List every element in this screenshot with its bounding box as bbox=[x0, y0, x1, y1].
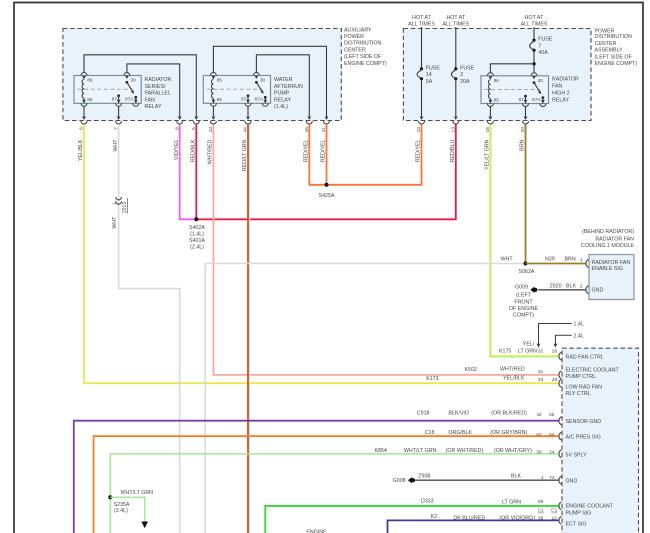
K1 coil pin 85 bbox=[81, 97, 93, 106]
wire K2-86 to pin 43 bbox=[212, 106, 214, 116]
svg-text:24: 24 bbox=[549, 450, 555, 456]
svg-text:LT GRN: LT GRN bbox=[518, 349, 537, 355]
svg-text:DISTRIBUTION: DISTRIBUTION bbox=[344, 41, 382, 47]
ECM pin ect sig bbox=[559, 517, 561, 525]
Z908 BLK labels bbox=[418, 473, 555, 481]
wire BRN pin20 to S062A bbox=[525, 124, 527, 263]
svg-text:WHT/LT GRN: WHT/LT GRN bbox=[404, 448, 437, 454]
wire ORG/BLK a/c pres sig bbox=[94, 436, 560, 533]
wire YEL/LT GRN pin16 to K175 row bbox=[490, 124, 560, 357]
S235A branch arrow bbox=[141, 522, 148, 529]
wire K1-30 to pin 8 rail bbox=[127, 64, 180, 116]
svg-text:GND: GND bbox=[592, 287, 604, 293]
svg-text:RELAY: RELAY bbox=[274, 97, 291, 103]
svg-text:(OR WHT/RED): (OR WHT/RED) bbox=[446, 448, 484, 454]
K3 coil pin 86 bbox=[487, 73, 499, 99]
ECM pin gnd bbox=[559, 476, 561, 484]
svg-text:D333: D333 bbox=[421, 498, 434, 504]
wire K2-87 to pin 44 bbox=[247, 106, 249, 116]
svg-text:30: 30 bbox=[130, 78, 136, 84]
svg-text:GND: GND bbox=[566, 479, 578, 485]
N29 BRN labels bbox=[545, 256, 583, 263]
svg-text:FAN: FAN bbox=[552, 84, 562, 90]
radiator fan cooling 1 module box bbox=[589, 255, 634, 300]
connector cups at box2 bottom edge bbox=[419, 121, 529, 124]
pin numbers under connector edge bbox=[79, 127, 526, 133]
K2 pin 87A bbox=[254, 96, 268, 106]
svg-text:26: 26 bbox=[552, 348, 558, 354]
fuse 7 junction bbox=[532, 62, 535, 65]
svg-text:S062A: S062A bbox=[519, 269, 535, 275]
svg-text:K2: K2 bbox=[431, 514, 438, 520]
wire WHT/LT GRN 5v sply bbox=[110, 454, 559, 533]
K3 pin 87 bbox=[519, 95, 529, 107]
svg-text:YEL/BLK: YEL/BLK bbox=[503, 375, 525, 381]
fuse 7 40A bbox=[530, 27, 553, 73]
power distribution center box (dashed) bbox=[403, 29, 591, 121]
svg-text:ENGINE COOLANT: ENGINE COOLANT bbox=[566, 504, 614, 510]
svg-text:C1: C1 bbox=[538, 508, 544, 514]
svg-text:20A: 20A bbox=[460, 79, 470, 85]
relay K3 radiator fan high 2 relay bbox=[481, 76, 549, 104]
svg-text:K175: K175 bbox=[499, 348, 511, 354]
svg-text:(BEHIND RADIATOR): (BEHIND RADIATOR) bbox=[582, 229, 634, 235]
svg-text:COOLING 1 MODULE: COOLING 1 MODULE bbox=[581, 243, 634, 249]
svg-text:86: 86 bbox=[217, 97, 223, 103]
right ECM/PCM box (dashed) bbox=[562, 348, 639, 533]
svg-text:RADIATOR: RADIATOR bbox=[552, 77, 579, 83]
svg-text:DK BLU/RED: DK BLU/RED bbox=[453, 515, 485, 521]
K3 pin 87A bbox=[532, 96, 546, 106]
svg-text:(2.4L): (2.4L) bbox=[114, 508, 128, 514]
svg-text:A/C PRES SIG: A/C PRES SIG bbox=[566, 435, 601, 441]
svg-text:BRN: BRN bbox=[565, 256, 576, 262]
splice S402A bbox=[194, 217, 198, 221]
svg-text:RELAY: RELAY bbox=[552, 97, 569, 103]
svg-text:2.4L: 2.4L bbox=[574, 333, 584, 339]
PDC label bbox=[595, 28, 638, 67]
svg-text:RLY CTRL: RLY CTRL bbox=[566, 391, 591, 397]
svg-text:1.4L: 1.4L bbox=[574, 322, 584, 328]
wire K2-30 to pin 45 rail bbox=[256, 55, 309, 116]
svg-text:AUXILIARY: AUXILIARY bbox=[344, 27, 372, 33]
wire YEL/BLK pin6 to K173 row bbox=[84, 124, 559, 383]
svg-text:ALL TIMES: ALL TIMES bbox=[408, 21, 435, 27]
svg-text:87A: 87A bbox=[532, 97, 541, 103]
svg-text:ALL TIMES: ALL TIMES bbox=[442, 21, 469, 27]
K175 row labels bbox=[499, 341, 557, 354]
K854 row labels bbox=[375, 448, 555, 456]
D333 row labels bbox=[421, 498, 558, 513]
K2 pin 87 bbox=[241, 94, 251, 106]
svg-text:FAN: FAN bbox=[145, 97, 155, 103]
auxiliary PDC label bbox=[344, 27, 387, 67]
relay K2 water afterrun pump relay bbox=[203, 76, 270, 104]
svg-text:2: 2 bbox=[460, 72, 463, 78]
svg-text:FUSE: FUSE bbox=[538, 37, 553, 43]
svg-text:G009: G009 bbox=[515, 285, 528, 291]
svg-text:ENGINE COMPT): ENGINE COMPT) bbox=[595, 61, 638, 67]
svg-text:Z908: Z908 bbox=[418, 473, 430, 479]
svg-text:CENTER: CENTER bbox=[344, 47, 366, 53]
svg-text:7: 7 bbox=[538, 43, 541, 49]
svg-text:DISTRIBUTION: DISTRIBUTION bbox=[595, 34, 633, 40]
svg-text:LOW RAD FAN: LOW RAD FAN bbox=[566, 384, 603, 390]
hot at all times label 2 bbox=[442, 15, 469, 28]
svg-text:87A: 87A bbox=[254, 97, 263, 103]
svg-text:86: 86 bbox=[87, 78, 93, 84]
wire VIO/YEL pin8 to S402A bbox=[180, 124, 197, 219]
wire Z920 BLK to module pin 2 bbox=[538, 289, 586, 291]
svg-text:30: 30 bbox=[538, 78, 544, 84]
svg-text:S401A: S401A bbox=[189, 238, 205, 244]
svg-text:10: 10 bbox=[552, 515, 558, 521]
wire K2 DK BLU/RED ect sig bbox=[388, 520, 560, 533]
splice S425A bbox=[325, 183, 329, 187]
svg-text:1: 1 bbox=[580, 257, 583, 263]
svg-text:S425A: S425A bbox=[319, 193, 335, 199]
K3 switch pin 30 bbox=[531, 73, 543, 95]
ECM pin low rad fan rly ctrl bbox=[559, 379, 561, 387]
svg-text:39: 39 bbox=[538, 515, 544, 521]
svg-text:WHT/LT GRN: WHT/LT GRN bbox=[121, 490, 154, 496]
wire name labels (rotated) bbox=[78, 139, 526, 229]
svg-text:2: 2 bbox=[580, 283, 583, 289]
svg-text:30: 30 bbox=[260, 78, 266, 84]
wire RED/LT GRN pin44 down off page bbox=[248, 124, 250, 533]
svg-text:33: 33 bbox=[538, 377, 544, 383]
svg-text:(2.4L): (2.4L) bbox=[190, 245, 204, 251]
C18 row labels bbox=[425, 430, 555, 438]
ECM pin a/c pres sig bbox=[559, 432, 561, 440]
G009 label block bbox=[509, 285, 539, 319]
svg-text:5A: 5A bbox=[426, 79, 433, 85]
ECM pin rad fan ctrl bbox=[559, 352, 561, 360]
svg-text:(LEFT: (LEFT bbox=[516, 292, 531, 298]
svg-text:FUSE: FUSE bbox=[460, 65, 475, 71]
wire WHT/RED pin43 to K502 row bbox=[213, 124, 559, 375]
svg-text:SERIES/: SERIES/ bbox=[145, 84, 166, 90]
svg-text:55: 55 bbox=[549, 412, 555, 418]
K1 pin 87A bbox=[125, 96, 139, 106]
wire WHT pin7 down with jog bbox=[119, 124, 180, 533]
fuse 14 5A bbox=[417, 27, 440, 116]
module pin 2 bbox=[586, 286, 588, 294]
svg-text:64: 64 bbox=[549, 432, 555, 438]
svg-text:ORG/BLK: ORG/BLK bbox=[448, 430, 472, 436]
wire K3-87 to pin 20 bbox=[525, 107, 527, 117]
svg-text:LT GRN: LT GRN bbox=[502, 499, 521, 505]
K2 row labels bbox=[431, 514, 558, 521]
K173 row labels bbox=[426, 375, 557, 382]
K2 switch pin 30 bbox=[253, 73, 265, 95]
svg-text:(OR GRY/BRN): (OR GRY/BRN) bbox=[490, 430, 527, 436]
svg-text:82: 82 bbox=[536, 432, 542, 438]
S235A labels bbox=[114, 490, 154, 514]
S235A branch wire bbox=[110, 497, 144, 521]
svg-text:WHT: WHT bbox=[501, 257, 514, 263]
svg-text:14: 14 bbox=[426, 72, 432, 78]
wire K1-87 to pin 7 bbox=[118, 106, 120, 116]
svg-text:K854: K854 bbox=[375, 448, 387, 454]
fuse 2 20A bbox=[451, 27, 474, 116]
svg-text:1: 1 bbox=[541, 475, 544, 481]
ECM pin engine coolant pump sig bbox=[559, 502, 561, 510]
svg-text:ENGINE COMPT): ENGINE COMPT) bbox=[344, 61, 387, 67]
svg-text:40A: 40A bbox=[538, 50, 548, 56]
K2 relay label bbox=[274, 77, 303, 110]
ECM pin 5v sply bbox=[559, 450, 561, 458]
ground G008 bbox=[408, 477, 415, 483]
svg-text:(LEFT SIDE OF: (LEFT SIDE OF bbox=[344, 54, 382, 60]
svg-text:ENABLE SIG: ENABLE SIG bbox=[592, 266, 624, 272]
K1 relay label bbox=[145, 77, 172, 110]
svg-text:85: 85 bbox=[87, 97, 93, 103]
svg-text:AFTERRUN: AFTERRUN bbox=[274, 84, 303, 90]
svg-text:(1.4L): (1.4L) bbox=[190, 232, 204, 238]
wire K1-85 to pin 6 bbox=[83, 106, 85, 116]
K2 coil pin 85 bbox=[210, 73, 222, 99]
svg-text:RELAY: RELAY bbox=[145, 104, 162, 110]
svg-text:RADIATOR FAN: RADIATOR FAN bbox=[595, 236, 634, 242]
1.4L callout bbox=[537, 322, 584, 348]
C918 row labels bbox=[417, 410, 555, 418]
svg-text:(OR VIO/ORG): (OR VIO/ORG) bbox=[499, 515, 535, 521]
svg-text:N29: N29 bbox=[545, 256, 555, 262]
ground G009 bbox=[530, 287, 537, 293]
svg-text:ECT SIG: ECT SIG bbox=[566, 521, 587, 527]
svg-text:85: 85 bbox=[217, 78, 223, 84]
K2 coil pin 86 bbox=[210, 97, 222, 106]
svg-text:PUMP: PUMP bbox=[274, 91, 290, 97]
svg-text:OF ENGINE: OF ENGINE bbox=[509, 306, 539, 312]
svg-text:BLK: BLK bbox=[566, 283, 576, 289]
svg-text:32: 32 bbox=[538, 348, 544, 354]
splice S062A bbox=[524, 262, 528, 266]
svg-text:87: 87 bbox=[519, 97, 525, 103]
svg-text:87A: 87A bbox=[125, 97, 134, 103]
svg-text:WHT: WHT bbox=[112, 216, 118, 229]
svg-text:K173: K173 bbox=[426, 376, 438, 382]
svg-text:C18: C18 bbox=[425, 430, 435, 436]
svg-text:HIGH 2: HIGH 2 bbox=[552, 90, 570, 96]
ECM pin sensor gnd bbox=[559, 417, 561, 425]
K3 relay label bbox=[552, 77, 579, 104]
module pin texts bbox=[592, 260, 631, 293]
K3 coil pin 85 bbox=[487, 98, 499, 107]
svg-text:29: 29 bbox=[552, 377, 558, 383]
K502 row labels bbox=[465, 367, 544, 375]
svg-text:1: 1 bbox=[112, 202, 118, 205]
wire K3-85 to pin 16 bbox=[489, 107, 491, 117]
svg-text:ASSEMBLY: ASSEMBLY bbox=[595, 48, 624, 54]
connector cups at box1 bottom edge bbox=[81, 121, 330, 124]
svg-text:SENSOR GND: SENSOR GND bbox=[566, 419, 602, 425]
svg-text:42: 42 bbox=[536, 412, 542, 418]
wire RED/YEL pin45 to S425A bbox=[309, 124, 326, 185]
svg-text:HOT AT: HOT AT bbox=[525, 15, 544, 21]
svg-text:C918: C918 bbox=[417, 410, 430, 416]
auxiliary power distribution center box (dashed) bbox=[63, 29, 341, 121]
svg-text:(OR WHT/GRY): (OR WHT/GRY) bbox=[494, 448, 532, 454]
svg-text:87: 87 bbox=[241, 97, 247, 103]
wire BLK/VIO sensor gnd bbox=[74, 421, 560, 533]
svg-text:YEL/: YEL/ bbox=[523, 341, 535, 347]
svg-text:FRONT: FRONT bbox=[514, 300, 533, 306]
svg-text:RADIATOR: RADIATOR bbox=[145, 77, 172, 83]
svg-text:PUMP CTRL: PUMP CTRL bbox=[566, 374, 597, 380]
svg-text:BLK/VIO: BLK/VIO bbox=[448, 410, 469, 416]
svg-text:S402A: S402A bbox=[189, 225, 205, 231]
svg-text:31: 31 bbox=[538, 369, 544, 375]
wire Z908 BLK gnd row bbox=[415, 479, 559, 481]
svg-text:FUSE: FUSE bbox=[426, 65, 441, 71]
svg-text:S235A: S235A bbox=[114, 502, 130, 508]
svg-text:86: 86 bbox=[494, 78, 500, 84]
hot at all times label 1 bbox=[408, 15, 435, 28]
wire RED/BLK pin5 to S402A to pin13 bbox=[196, 124, 456, 219]
2.4L callout bbox=[554, 333, 584, 347]
module pin 1 bbox=[586, 260, 588, 268]
wire K1-86 to pin 5 rail bbox=[84, 55, 196, 116]
relay K1 radiator series/parallel fan relay bbox=[74, 76, 141, 104]
svg-text:RAD FAN CTRL: RAD FAN CTRL bbox=[566, 354, 604, 360]
Z920 BLK labels bbox=[550, 283, 583, 289]
svg-text:85: 85 bbox=[494, 98, 500, 104]
wire WHT horizontal to S062A bbox=[205, 264, 525, 533]
svg-text:ELECTRIC COOLANT: ELECTRIC COOLANT bbox=[566, 367, 620, 373]
svg-text:HOT AT: HOT AT bbox=[446, 15, 465, 21]
K1 pin 87 bbox=[112, 94, 122, 106]
svg-text:CENTER: CENTER bbox=[595, 41, 617, 47]
svg-text:Z920: Z920 bbox=[550, 283, 562, 289]
connector arrows at box1 bottom edge bbox=[82, 117, 328, 120]
svg-text:59: 59 bbox=[538, 499, 544, 505]
wire K2-85 to pin 41 rail bbox=[213, 46, 326, 116]
svg-text:ALL TIMES: ALL TIMES bbox=[521, 21, 548, 27]
svg-text:PARALLEL: PARALLEL bbox=[145, 91, 171, 97]
K1 coil pin 86 bbox=[81, 73, 93, 99]
K1 switch pin 30 bbox=[124, 73, 136, 95]
svg-text:POWER: POWER bbox=[344, 34, 364, 40]
svg-text:K502: K502 bbox=[465, 367, 477, 373]
wire D333 LT GRN engine coolant pump sig bbox=[265, 506, 559, 533]
module label bbox=[581, 229, 634, 249]
svg-text:PUMP SIG: PUMP SIG bbox=[566, 510, 592, 516]
svg-text:COMPT): COMPT) bbox=[513, 312, 534, 318]
inline connector C1015 bbox=[112, 197, 129, 214]
svg-text:HOT AT: HOT AT bbox=[412, 15, 431, 21]
svg-text:C1: C1 bbox=[551, 508, 557, 514]
rail fuse7 to K3-86 bbox=[490, 64, 534, 73]
svg-text:WHT/RED: WHT/RED bbox=[500, 367, 525, 373]
wire RED/YEL pin41 to S425A to pin10 bbox=[327, 124, 422, 185]
svg-text:5V SPLY: 5V SPLY bbox=[566, 452, 588, 458]
wire N29 BRN S062A to module pin 1 bbox=[526, 263, 587, 265]
hot at all times label 3 bbox=[521, 15, 548, 28]
svg-text:72: 72 bbox=[549, 475, 555, 481]
svg-text:WATER: WATER bbox=[274, 77, 293, 83]
splice S235A bbox=[108, 495, 112, 499]
svg-text:(LEFT SIDE OF: (LEFT SIDE OF bbox=[595, 55, 633, 61]
svg-text:38: 38 bbox=[536, 450, 542, 456]
svg-text:BLK: BLK bbox=[511, 473, 521, 479]
svg-text:87: 87 bbox=[112, 97, 118, 103]
connector arrows at box2 bottom edge bbox=[420, 117, 528, 120]
svg-text:(1.4L): (1.4L) bbox=[274, 104, 288, 110]
svg-text:(OR BLK/RED): (OR BLK/RED) bbox=[491, 410, 527, 416]
ECM pin electric coolant pump ctrl bbox=[559, 371, 561, 379]
S402A label bbox=[189, 225, 205, 251]
svg-text:G008: G008 bbox=[393, 478, 406, 484]
